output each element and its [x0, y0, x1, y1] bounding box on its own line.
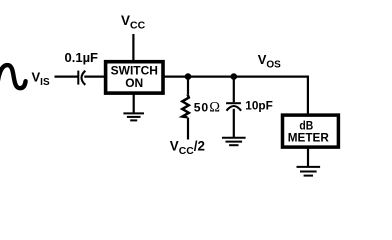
svg-text:50Ω: 50Ω [194, 100, 221, 116]
wire C1 to switch [84, 75, 104, 77]
switch U1 box [106, 62, 163, 93]
ground G1 [123, 113, 144, 120]
wire meter to ground [307, 149, 309, 167]
capacitor C1 0.1uF [78, 71, 85, 85]
node A junction [185, 73, 192, 80]
capacitor C2 10pF [226, 77, 241, 138]
svg-text:dB: dB [299, 119, 313, 133]
wire switch to ground [133, 94, 135, 113]
svg-text:METER: METER [288, 133, 330, 145]
wire down to meter [307, 76, 309, 116]
svg-text:ON: ON [125, 76, 143, 90]
svg-text:0.1µF: 0.1µF [65, 50, 99, 65]
ground G3 [297, 167, 321, 176]
ground G2 [222, 138, 246, 145]
node B junction [231, 73, 238, 80]
resistor R1 50ohm [182, 77, 189, 140]
wire VCC to switch [132, 34, 134, 61]
dB meter M1 box [283, 115, 339, 147]
source VIS sine symbol [0, 65, 26, 88]
svg-text:10pF: 10pF [245, 98, 273, 112]
wire VIS to C1 [55, 75, 78, 77]
wire switch output [162, 75, 309, 77]
